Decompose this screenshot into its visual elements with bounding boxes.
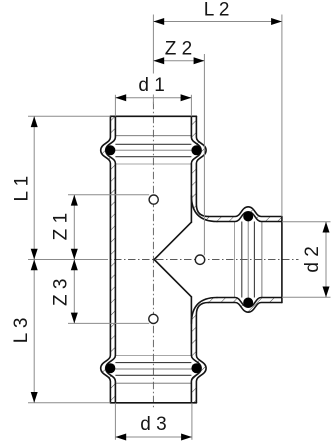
arrow d2 up [323,222,330,233]
arrow L2 left [153,18,164,25]
bottom bead groove line lower [115,374,191,376]
svg-text:Z 2: Z 2 [165,38,192,59]
branch top inner wall with bead [217,212,282,222]
extension line d2 top [282,221,331,223]
extension line Z3 bottom [68,322,149,324]
d3 dimension line [115,436,191,438]
Z3 dimension line [73,260,75,324]
top end face [110,115,196,117]
arrow L3 up [31,260,38,271]
V chevron upper arm (branch bore edge) [154,222,191,259]
L2 dimension line [153,21,282,23]
arrow L2 right [271,18,282,25]
bottom end face [110,402,196,404]
svg-text:d 3: d 3 [140,414,166,435]
Z1 dimension line [73,195,75,260]
o-ring bottom-right [191,363,201,373]
extension line d1 right [190,95,192,117]
arrow d2 down [323,287,330,298]
arrow L3 down [31,392,38,403]
extension line centre axis up [152,15,154,74]
extension line centre horizontal left [28,259,108,261]
arrow d1 right [181,94,192,101]
extension line top edge left [28,115,110,117]
o-ring branch-bottom [243,298,253,308]
arrow Z3 up [71,260,78,271]
extension line Z2 right [203,54,205,255]
arrow L1 down [31,249,38,260]
inner fillet curve lower [191,298,217,324]
extension line branch end up [281,15,283,217]
extension line Z1 top (socket depth) [68,194,149,196]
right inner wall lower with bead [191,297,201,403]
witness circle branch [195,255,204,264]
branch bead groove line left [241,222,243,298]
right upper wall + branch top wall (hatched section) [191,116,282,221]
top bead mid line [115,149,191,151]
right outer wall lower with bead + fillet to branch [196,303,208,403]
arrow Z1 down [71,249,78,260]
d1 dimension line [115,97,191,99]
top bead groove line upper [115,143,191,145]
centerline horizontal (branch axis) [100,259,299,261]
arrow d1 left [115,94,126,101]
branch bead groove line right [253,222,255,298]
V chevron lower arm (branch bore edge) [154,260,191,297]
svg-text:L 1: L 1 [11,176,32,202]
extension line d1 left [114,95,116,117]
branch end face [281,217,283,303]
o-ring top-right [191,145,201,155]
socket depth line bottom [115,382,191,384]
svg-text:L 2: L 2 [204,0,230,21]
arrow Z2 right [194,57,205,64]
svg-text:L 3: L 3 [11,318,32,344]
L3 dimension line [33,260,35,403]
branch socket depth line [261,222,263,298]
arrow Z2 left [153,57,164,64]
extension line bottom edge left [28,402,110,404]
branch top outer wall with bead [208,207,282,217]
right lower wall + branch bottom wall (hatched section) [191,298,282,403]
centerline vertical [152,102,154,409]
branch bottom outer wall with bead [208,303,282,313]
bottom bead groove line upper [115,362,191,364]
branch bead tangent line [234,222,236,298]
socket depth line top [115,135,191,137]
left inner wall with beads [106,116,116,403]
arrow d3 left [115,434,126,441]
top bead tangent line [115,163,191,165]
extension line d2 bottom [282,296,331,298]
svg-text:Z 3: Z 3 [50,279,71,306]
witness circle upper [149,195,158,204]
Z2 dimension line [153,60,204,62]
extension line centre axis up (below label) [152,95,154,105]
o-ring branch-top [243,212,253,222]
o-ring bottom-left [105,363,115,373]
o-ring top-left [105,145,115,155]
branch bead mid line [247,222,249,298]
interior socket / bead lines [115,136,262,384]
right outer wall upper with bead + fillet to branch [196,116,208,216]
inner fillet curve upper [191,196,217,222]
left wall strip of vertical pipe (hatched section) [101,116,116,403]
svg-text:d 2: d 2 [302,246,323,272]
svg-text:Z 1: Z 1 [51,213,72,240]
extension line d3 left [114,403,116,440]
bottom bead mid line [115,368,191,370]
branch bottom inner wall with bead [217,298,282,308]
arrow Z1 up [71,195,78,206]
arrow L1 up [31,116,38,127]
arrow Z3 down [71,313,78,324]
witness circle lower [149,314,158,323]
top bead groove line lower [115,156,191,158]
right inner wall upper with bead [191,116,201,222]
bottom bead tangent line [115,355,191,357]
left outer wall with beads [101,116,111,403]
svg-text:d 1: d 1 [138,75,164,96]
extension line d3 right [191,403,193,440]
arrow d3 right [181,434,192,441]
d2 dimension line [325,222,327,298]
body outlines [101,116,282,403]
L1 dimension line [33,116,35,259]
